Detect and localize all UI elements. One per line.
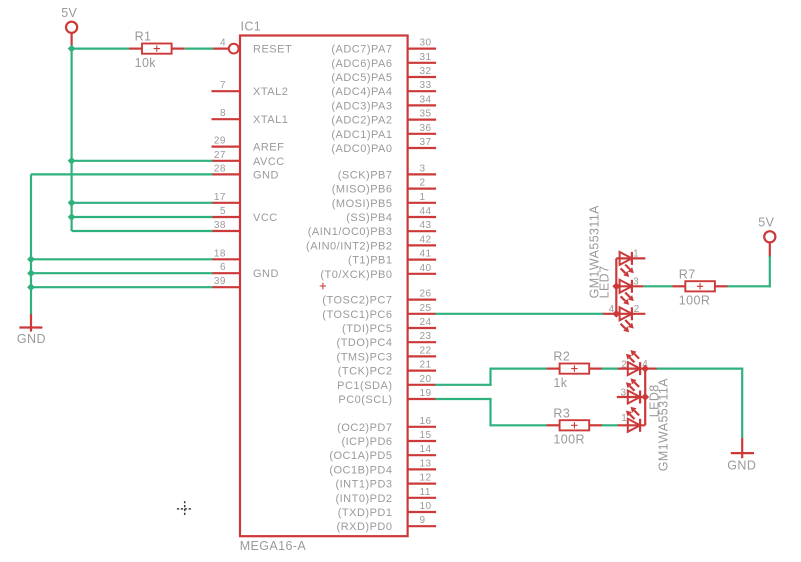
svg-text:16: 16 (420, 416, 432, 427)
label IC1 (241, 20, 262, 34)
IC1 right pin 20 PC1(SDA) (337, 374, 436, 392)
svg-text:(AIN0/INT2)PB2: (AIN0/INT2)PB2 (306, 240, 392, 252)
svg-text:(T1)PB1: (T1)PB1 (348, 255, 392, 267)
junction GND pin39 (27, 283, 35, 291)
svg-text:23: 23 (420, 331, 432, 342)
wire GND pin28 (31, 173, 213, 175)
wire LED8 pin4 to GND (657, 368, 744, 370)
svg-text:43: 43 (420, 220, 432, 231)
svg-text:PC1(SDA): PC1(SDA) (337, 380, 392, 392)
wire R1 to RESET (185, 47, 214, 49)
svg-text:MEGA16-A: MEGA16-A (240, 539, 307, 553)
svg-text:(T0/XCK)PB0: (T0/XCK)PB0 (320, 269, 392, 281)
IC1 left pin 4 RESET (212, 38, 293, 56)
svg-text:5V: 5V (758, 215, 774, 229)
svg-text:R7: R7 (679, 267, 696, 281)
resistor R1 10k (129, 30, 185, 70)
IC1 right pin 34 (ADC3)PA3 (331, 94, 436, 112)
svg-text:GND: GND (253, 268, 279, 280)
svg-text:6: 6 (220, 262, 226, 273)
svg-text:28: 28 (214, 163, 226, 174)
svg-text:(TOSC2)PC7: (TOSC2)PC7 (322, 295, 392, 307)
wire PC6 to LED7 pin4 (435, 313, 603, 315)
svg-text:40: 40 (420, 263, 432, 274)
IC1 right pin 22 (TMS)PC3 (337, 345, 437, 363)
wire LED7 pin3 to R7 (643, 285, 672, 287)
IC1 left pin 6 GND (212, 262, 279, 280)
wire PC0 to R3 (491, 424, 547, 426)
svg-text:32: 32 (420, 66, 432, 77)
svg-text:(SCK)PB7: (SCK)PB7 (338, 169, 393, 181)
IC1 right pin 26 (TOSC2)PC7 (322, 289, 436, 307)
svg-text:(ADC3)PA3: (ADC3)PA3 (331, 100, 392, 112)
IC1 right pin 35 (ADC2)PA2 (331, 109, 436, 127)
svg-text:5: 5 (220, 206, 226, 217)
IC1 right pin 3 (SCK)PB7 (338, 163, 436, 181)
IC1 right pin 19 PC0(SCL) (338, 388, 436, 406)
svg-text:9: 9 (420, 515, 426, 526)
wire GND pin39 (31, 286, 213, 288)
junction GND pin18 (27, 255, 35, 263)
IC1 right pin 16 (OC2)PD7 (337, 416, 436, 434)
svg-text:19: 19 (420, 388, 432, 399)
IC1 right pin 42 (AIN0/INT2)PB2 (306, 234, 436, 252)
label GM1WA55311A (LED7 value) (587, 205, 601, 299)
IC1 right pin 1 (MOSI)PB5 (332, 192, 436, 210)
svg-text:3: 3 (620, 388, 626, 399)
label LED7 (598, 266, 612, 299)
resistor R3 100R (547, 406, 603, 446)
svg-text:2: 2 (621, 359, 627, 370)
IC1 right pin 36 (ADC1)PA1 (331, 123, 436, 141)
svg-text:XTAL2: XTAL2 (253, 86, 288, 98)
IC1 left pin 18 (212, 248, 241, 259)
junction GND pin6 (27, 269, 35, 277)
ground GND (right) (727, 438, 756, 473)
svg-text:7: 7 (220, 80, 226, 91)
svg-text:3: 3 (420, 163, 426, 174)
ground GND (left) (17, 313, 46, 346)
wire 5V to R1 (72, 47, 129, 49)
svg-text:21: 21 (420, 360, 432, 371)
svg-text:2: 2 (420, 178, 426, 189)
svg-text:(MOSI)PB5: (MOSI)PB5 (332, 198, 393, 210)
wire GND pin18 (31, 258, 213, 260)
svg-text:33: 33 (420, 80, 432, 91)
wire PC0 jog down (489, 399, 491, 426)
junction 5V/R1/rail (68, 45, 76, 53)
label GM1WA55311A (LED8 value) (656, 378, 670, 472)
wire GND right vertical (741, 369, 743, 439)
svg-text:22: 22 (420, 345, 432, 356)
svg-text:29: 29 (214, 136, 226, 147)
svg-text:(ADC7)PA7: (ADC7)PA7 (331, 44, 392, 56)
svg-text:24: 24 (420, 317, 432, 328)
LED8 die C (bottom, pin 1) (617, 407, 645, 432)
svg-text:(ADC6)PA6: (ADC6)PA6 (331, 58, 392, 70)
sheet origin cross (177, 501, 193, 517)
IC1 right pin 41 (T1)PB1 (348, 249, 436, 267)
IC U1: microcontroller IC1 MEGA16-A body (240, 36, 408, 537)
svg-text:(TDI)PC5: (TDI)PC5 (342, 323, 392, 335)
IC1 right pin 32 (ADC5)PA5 (331, 66, 436, 84)
svg-text:41: 41 (420, 249, 432, 260)
svg-text:14: 14 (420, 444, 432, 455)
IC1 right pin 14 (OC1A)PD5 (329, 444, 436, 462)
IC1 right pin 10 (TXD)PD1 (338, 501, 436, 519)
IC1 right pin 30 (ADC7)PA7 (331, 38, 436, 56)
label MEGA16-A (240, 539, 307, 553)
IC1 right pin 21 (TCK)PC2 (338, 360, 436, 378)
IC1 right pin 2 (MISO)PB6 (332, 178, 436, 196)
LED7 die B (middle, pin 3) (616, 280, 643, 305)
svg-text:(SS)PB4: (SS)PB4 (346, 212, 392, 224)
svg-text:GM1WA55311A: GM1WA55311A (656, 378, 670, 472)
svg-text:2: 2 (634, 304, 640, 315)
junction LED7 anode mid (612, 282, 620, 290)
LED7 pin numbers (609, 248, 640, 315)
svg-text:(ADC0)PA0: (ADC0)PA0 (331, 143, 392, 155)
wire VCC pin38 (72, 230, 213, 232)
wire GND rail vertical (30, 174, 32, 314)
wire R7 to 5V corner (727, 285, 771, 287)
svg-text:35: 35 (420, 109, 432, 120)
svg-text:10k: 10k (135, 56, 157, 70)
svg-text:11: 11 (420, 487, 431, 498)
IC1 left pin 38 (212, 220, 241, 231)
junction VCC pin5 (68, 213, 76, 221)
svg-text:8: 8 (220, 108, 226, 119)
svg-text:(OC2)PD7: (OC2)PD7 (337, 422, 392, 434)
svg-text:AREF: AREF (253, 142, 284, 154)
label LED8 (647, 384, 661, 417)
svg-text:(RXD)PD0: (RXD)PD0 (337, 521, 393, 533)
svg-text:13: 13 (420, 458, 432, 469)
svg-text:44: 44 (420, 206, 432, 217)
resistor R7 100R (672, 267, 728, 307)
IC1 right pin 33 (ADC4)PA4 (331, 80, 436, 98)
IC1 left pin 7 XTAL2 (212, 80, 289, 98)
svg-text:GND: GND (17, 332, 46, 346)
junction LED8 cathode top (641, 365, 649, 373)
LED8 pin 4 stub (645, 368, 658, 370)
IC1 right pin 9 (RXD)PD0 (337, 515, 437, 533)
supply 5V (left) (61, 6, 77, 47)
svg-text:(INT1)PD3: (INT1)PD3 (335, 479, 392, 491)
svg-text:(OC1B)PD4: (OC1B)PD4 (329, 464, 392, 476)
IC1 right pin 23 (TDO)PC4 (337, 331, 437, 349)
IC1 right pin 13 (OC1B)PD4 (329, 458, 436, 476)
IC1 right pin 11 (INT0)PD2 (335, 487, 436, 505)
IC1 right pin 24 (TDI)PC5 (342, 317, 436, 335)
svg-text:100R: 100R (679, 294, 710, 308)
IC1 left pin 39 (212, 276, 241, 287)
svg-text:34: 34 (420, 94, 432, 105)
IC1 right pin 40 (T0/XCK)PB0 (320, 263, 436, 281)
svg-text:15: 15 (420, 430, 432, 441)
svg-text:30: 30 (420, 38, 432, 49)
svg-text:1: 1 (621, 413, 627, 424)
svg-text:(ADC2)PA2: (ADC2)PA2 (331, 115, 392, 127)
wire 5V right vertical (769, 256, 771, 287)
wire AVCC (72, 160, 213, 162)
IC1 right pin 25 (TOSC1)PC6 (322, 303, 436, 321)
svg-text:38: 38 (214, 220, 226, 231)
svg-text:1: 1 (633, 248, 639, 259)
wire 5V rail vertical (70, 49, 72, 231)
wire PC0 horizontal (435, 398, 492, 400)
IC1 right pin 31 (ADC6)PA6 (331, 52, 436, 70)
svg-text:XTAL1: XTAL1 (253, 114, 288, 126)
svg-text:4: 4 (220, 38, 226, 49)
IC1 left pin 29 AREF (212, 136, 285, 154)
svg-text:26: 26 (420, 289, 432, 300)
svg-text:GM1WA55311A: GM1WA55311A (587, 205, 601, 299)
IC1 right pin 12 (INT1)PD3 (335, 473, 436, 491)
junction LED8 cathode mid (641, 393, 649, 401)
wire R2 to LED8 pin2 (602, 368, 618, 370)
svg-text:1: 1 (420, 192, 426, 203)
svg-text:(TXD)PD1: (TXD)PD1 (338, 507, 393, 519)
IC1 left pin 28 GND (212, 163, 279, 181)
svg-text:25: 25 (420, 303, 432, 314)
svg-text:(OC1A)PD5: (OC1A)PD5 (329, 450, 392, 462)
svg-text:R3: R3 (553, 406, 570, 420)
svg-text:27: 27 (214, 150, 226, 161)
IC1 right pin 15 (ICP)PD6 (341, 430, 436, 448)
svg-text:12: 12 (420, 473, 432, 484)
LED7 die C (bottom, pins 4-2) (602, 307, 646, 332)
LED8 common cathode bus (644, 369, 646, 426)
svg-text:(AIN1/OC0)PB3: (AIN1/OC0)PB3 (308, 226, 393, 238)
svg-text:36: 36 (420, 123, 432, 134)
wire PC1 jog up (489, 368, 491, 386)
resistor R2 1k (547, 350, 603, 390)
svg-text:(ADC1)PA1: (ADC1)PA1 (331, 129, 392, 141)
svg-text:(ADC5)PA5: (ADC5)PA5 (331, 72, 392, 84)
junction VCC pin17 (68, 199, 76, 207)
svg-text:RESET: RESET (253, 44, 292, 56)
wire PC1 horizontal (435, 384, 492, 386)
svg-text:42: 42 (420, 234, 432, 245)
svg-text:GND: GND (253, 169, 279, 181)
IC1 right pin 43 (AIN1/OC0)PB3 (308, 220, 436, 238)
svg-text:18: 18 (214, 248, 226, 259)
svg-text:GND: GND (727, 458, 756, 472)
IC1 left pin 8 XTAL1 (212, 108, 289, 126)
svg-text:37: 37 (420, 137, 432, 148)
LED8 die B (middle, pin 3) (617, 378, 645, 403)
IC1 left pin 27 AVCC (212, 150, 285, 168)
svg-text:20: 20 (420, 374, 432, 385)
svg-text:(TCK)PC2: (TCK)PC2 (338, 366, 393, 378)
svg-text:(TMS)PC3: (TMS)PC3 (337, 351, 393, 363)
svg-text:AVCC: AVCC (253, 156, 285, 168)
wire VCC pin17 (72, 202, 213, 204)
LED8 die A (top, pins 2-4) (617, 350, 645, 375)
svg-text:R2: R2 (553, 350, 570, 364)
svg-text:1k: 1k (553, 376, 567, 390)
svg-text:(ADC4)PA4: (ADC4)PA4 (331, 86, 392, 98)
svg-text:10: 10 (420, 501, 432, 512)
LED8 pin numbers (620, 359, 648, 424)
svg-text:(TDO)PC4: (TDO)PC4 (337, 337, 393, 349)
svg-text:31: 31 (420, 52, 432, 63)
svg-text:(MISO)PB6: (MISO)PB6 (332, 184, 393, 196)
junction AVCC (68, 157, 76, 165)
wire R3 to LED8 pin1 (602, 424, 618, 426)
svg-text:IC1: IC1 (241, 20, 262, 34)
supply 5V (right) (758, 215, 775, 257)
IC1 right pin 44 (SS)PB4 (346, 206, 436, 224)
junction LED7 anode bottom (612, 310, 620, 318)
IC1 left pin 17 (212, 192, 241, 203)
svg-text:3: 3 (633, 276, 639, 287)
svg-text:PC0(SCL): PC0(SCL) (338, 394, 392, 406)
svg-text:100R: 100R (553, 433, 584, 447)
IC1 left pin 5 VCC (212, 206, 278, 224)
svg-text:5V: 5V (61, 6, 77, 20)
wire PC1 to R2 (491, 368, 547, 370)
wire GND pin6 (31, 272, 213, 274)
svg-text:17: 17 (214, 192, 226, 203)
wire VCC pin5 (72, 216, 213, 218)
svg-text:(INT0)PD2: (INT0)PD2 (335, 493, 392, 505)
IC1 right pin 37 (ADC0)PA0 (331, 137, 436, 155)
svg-text:R1: R1 (135, 30, 152, 44)
svg-text:(ICP)PD6: (ICP)PD6 (341, 436, 392, 448)
svg-text:VCC: VCC (253, 212, 278, 224)
svg-text:(TOSC1)PC6: (TOSC1)PC6 (322, 309, 392, 321)
svg-text:39: 39 (214, 276, 226, 287)
LED7 die A (top, pin 1) (616, 252, 645, 277)
LED7 common anode bus (615, 258, 617, 313)
